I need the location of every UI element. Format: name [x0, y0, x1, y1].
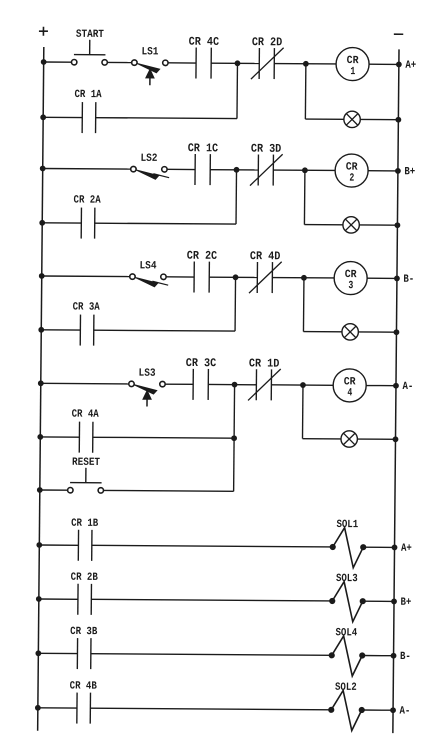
- wire SOL1 to rail: [363, 546, 394, 548]
- NO contact CR 1B: [71, 518, 99, 561]
- wire contact CR 3C to NC contact CR 1D: [208, 383, 256, 385]
- svg-text:SOL1: SOL1: [336, 519, 358, 531]
- pushbutton RESET: [68, 457, 104, 493]
- junction left rail RESET: [37, 488, 42, 493]
- wire NC contact to coil CR1: [274, 63, 336, 65]
- wire CR 2A to riser: [95, 222, 236, 225]
- wire contact CR 2C to NC contact CR 4D: [209, 276, 257, 278]
- junction node rung1/lamp: [303, 61, 308, 66]
- wire contact CR 4C to NC contact CR 2D: [211, 62, 259, 64]
- NO contact CR 1C: [187, 141, 218, 185]
- svg-text:CR 3D: CR 3D: [251, 142, 282, 156]
- junction node rung1/branch: [235, 61, 240, 66]
- power rail - (right): [393, 49, 399, 733]
- wire riser rung4 to RESET: [233, 385, 236, 492]
- junction left rail rung8: [35, 705, 40, 710]
- wire RESET rail to button: [40, 489, 68, 491]
- wire SOL2 to rail: [362, 709, 393, 711]
- wire branch CR 2A from rail: [42, 222, 81, 224]
- NO contact CR 4A: [71, 409, 99, 453]
- minus terminal mark: [394, 33, 403, 35]
- wire CR 4A to riser: [93, 436, 234, 439]
- power rail + (left): [38, 47, 44, 731]
- wire lamp3 to rail: [358, 331, 396, 333]
- NO contact CR 2A: [73, 195, 101, 239]
- wire riser branch1 to rung1: [236, 63, 238, 118]
- junction left rail branch4: [38, 434, 43, 439]
- wire rung7 rail to contact: [38, 652, 77, 654]
- svg-text:3: 3: [348, 280, 353, 292]
- wire to lamp3: [303, 331, 342, 333]
- wire branch CR 1A from rail: [43, 116, 82, 118]
- svg-text:CR 1C: CR 1C: [188, 141, 219, 155]
- wire coil CR2 to rail: [368, 170, 398, 172]
- svg-text:B+: B+: [400, 597, 411, 609]
- svg-text:CR 1D: CR 1D: [249, 356, 280, 370]
- limit switch LS4: [130, 260, 169, 287]
- NO contact CR 4B: [69, 681, 97, 724]
- wire riser branch3 to rung3: [234, 277, 236, 331]
- wire coil CR4 to rail: [366, 385, 396, 387]
- wire CR 2B to SOL3: [91, 599, 332, 601]
- NC contact CR 2D: [251, 35, 284, 79]
- junction right rail lamp2: [395, 223, 400, 228]
- svg-text:CR 3B: CR 3B: [70, 626, 98, 638]
- junction node rung3/branch: [233, 275, 238, 280]
- junction left rail rung1: [41, 60, 46, 65]
- junction left rail branch3: [39, 327, 44, 332]
- svg-text:CR 3C: CR 3C: [186, 356, 217, 370]
- svg-text:CR 1B: CR 1B: [71, 518, 99, 530]
- junction right rail rung1: [396, 62, 401, 67]
- svg-text:2: 2: [349, 173, 354, 185]
- wire rung2 rail to LS2: [43, 167, 131, 170]
- wire LS4 to contact CR 2C: [166, 276, 194, 278]
- wire lamp2 to rail: [359, 224, 397, 226]
- solenoid SOL3: [329, 573, 365, 622]
- junction right rail rung4: [394, 383, 399, 388]
- junction right rail rung6: [392, 599, 397, 604]
- NO contact CR 3A: [72, 302, 100, 346]
- wire START to LS1: [107, 61, 131, 63]
- junction left rail rung5: [37, 543, 42, 548]
- relay coil CR3: [334, 261, 367, 294]
- relay coil CR2: [335, 154, 368, 187]
- junction right rail rung2: [395, 168, 400, 173]
- svg-text:4: 4: [347, 387, 352, 399]
- wire NC contact to coil CR4: [271, 384, 333, 386]
- wire to lamp2: [304, 224, 343, 226]
- wire coil CR3 to rail: [367, 277, 397, 279]
- svg-text:CR 2C: CR 2C: [187, 249, 218, 263]
- svg-text:CR 4B: CR 4B: [70, 681, 98, 693]
- junction right rail lamp4: [393, 437, 398, 442]
- svg-text:LS3: LS3: [139, 368, 156, 380]
- junction node rung4/branch: [232, 382, 237, 387]
- wire to lamp4: [302, 438, 341, 440]
- junction left rail branch1: [41, 115, 46, 120]
- junction node rung4/lamp: [301, 383, 306, 388]
- solenoid SOL2: [328, 682, 364, 731]
- wire CR 1A to riser: [96, 117, 237, 120]
- NO contact CR 1A: [74, 89, 102, 133]
- wire rung1 rail to START: [44, 61, 72, 63]
- relay coil CR1: [336, 47, 369, 80]
- NC contact CR 3D: [250, 142, 283, 186]
- wire riser branch2 to rung2: [235, 170, 237, 224]
- pushbutton START: [71, 29, 107, 65]
- svg-text:B+: B+: [404, 166, 415, 178]
- limit switch LS2: [131, 153, 170, 180]
- junction branch4/riser: [232, 436, 237, 441]
- junction node rung2/branch: [234, 167, 239, 172]
- NO contact CR 3C: [185, 356, 216, 400]
- NC contact CR 1D: [248, 356, 281, 400]
- junction left rail rung4: [38, 381, 43, 386]
- junction right rail lamp1: [396, 117, 401, 122]
- wire lamp1 to rail: [360, 118, 398, 120]
- wire LS1 to contact CR 4C: [168, 62, 196, 64]
- wire LS3 to contact CR 3C: [165, 383, 193, 385]
- pilot lamp 4: [341, 431, 358, 448]
- NC contact CR 4D: [249, 249, 282, 293]
- wire SOL4 to rail: [362, 655, 393, 657]
- svg-text:SOL4: SOL4: [335, 627, 357, 639]
- wire LS2 to contact CR 1C: [167, 168, 195, 170]
- svg-text:A-: A-: [402, 381, 413, 393]
- junction left rail rung2: [40, 166, 45, 171]
- svg-text:A+: A+: [405, 60, 416, 72]
- junction right rail rung5: [392, 545, 397, 550]
- wire lamp1 drop: [304, 64, 306, 119]
- wire RESET to riser: [104, 489, 234, 492]
- wire branch CR 3A from rail: [41, 329, 80, 331]
- junction right rail rung8: [391, 708, 396, 713]
- limit switch LS1: [131, 46, 168, 85]
- junction node rung2/lamp: [302, 168, 307, 173]
- wire lamp3 drop: [302, 278, 304, 332]
- junction left rail rung7: [36, 651, 41, 656]
- limit switch LS3: [129, 368, 166, 407]
- wire NC contact to coil CR3: [272, 277, 334, 279]
- junction right rail rung3: [395, 276, 400, 281]
- svg-text:RESET: RESET: [72, 457, 100, 469]
- junction node rung3/lamp: [302, 275, 307, 280]
- wire rung8 rail to contact: [38, 707, 77, 709]
- wire CR 4B to SOL2: [90, 708, 331, 710]
- junction left rail branch2: [40, 220, 45, 225]
- junction right rail rung7: [391, 653, 396, 658]
- pilot lamp 3: [342, 324, 359, 341]
- svg-text:LS1: LS1: [141, 46, 158, 58]
- plus terminal mark: [39, 30, 48, 32]
- NO contact CR 2B: [70, 572, 98, 615]
- junction right rail lamp3: [394, 330, 399, 335]
- NO contact CR 4C: [188, 35, 219, 79]
- pilot lamp 1: [344, 111, 361, 128]
- svg-text:A-: A-: [399, 706, 410, 718]
- wire rung6 rail to contact: [39, 598, 78, 600]
- svg-text:SOL3: SOL3: [336, 573, 358, 585]
- svg-text:B-: B-: [400, 651, 411, 663]
- wire rung4 rail to LS3: [41, 382, 129, 385]
- wire rung5 rail to contact: [39, 544, 78, 546]
- NO contact CR 2C: [186, 249, 217, 293]
- svg-text:CR 2D: CR 2D: [252, 35, 283, 49]
- wire CR 3A to riser: [94, 329, 235, 332]
- solenoid SOL4: [329, 627, 365, 676]
- svg-text:CR 4A: CR 4A: [72, 409, 100, 421]
- wire SOL3 to rail: [363, 600, 394, 602]
- svg-text:CR 2B: CR 2B: [71, 572, 99, 584]
- pilot lamp 2: [343, 217, 360, 234]
- wire CR 1B to SOL1: [92, 545, 333, 547]
- svg-text:SOL2: SOL2: [335, 682, 357, 694]
- svg-text:A+: A+: [401, 543, 412, 555]
- junction left rail rung3: [39, 274, 44, 279]
- wire lamp4 drop: [301, 385, 303, 439]
- svg-text:CR 4D: CR 4D: [250, 249, 281, 263]
- svg-text:CR 3A: CR 3A: [73, 302, 101, 314]
- wire to lamp1: [305, 118, 344, 120]
- solenoid SOL1: [330, 519, 366, 568]
- wire branch CR 4A from rail: [40, 436, 79, 438]
- NO contact CR 3B: [70, 626, 98, 669]
- svg-text:LS2: LS2: [140, 153, 157, 165]
- svg-text:CR 1A: CR 1A: [74, 89, 102, 101]
- svg-text:CR 4C: CR 4C: [189, 35, 220, 49]
- svg-text:CR 2A: CR 2A: [74, 195, 102, 207]
- wire lamp2 drop: [303, 170, 305, 224]
- wire lamp4 to rail: [357, 438, 395, 440]
- wire NC contact to coil CR2: [273, 169, 335, 171]
- svg-text:B-: B-: [403, 274, 414, 286]
- junction left rail rung6: [36, 597, 41, 602]
- wire coil CR1 to rail: [369, 63, 399, 65]
- wire rung3 rail to LS4: [42, 275, 130, 278]
- relay coil CR4: [333, 369, 366, 402]
- svg-text:1: 1: [350, 66, 355, 78]
- wire CR 3B to SOL4: [91, 654, 332, 656]
- svg-text:LS4: LS4: [139, 260, 156, 272]
- svg-text:START: START: [76, 29, 104, 41]
- wire contact CR 1C to NC contact CR 3D: [210, 169, 258, 171]
